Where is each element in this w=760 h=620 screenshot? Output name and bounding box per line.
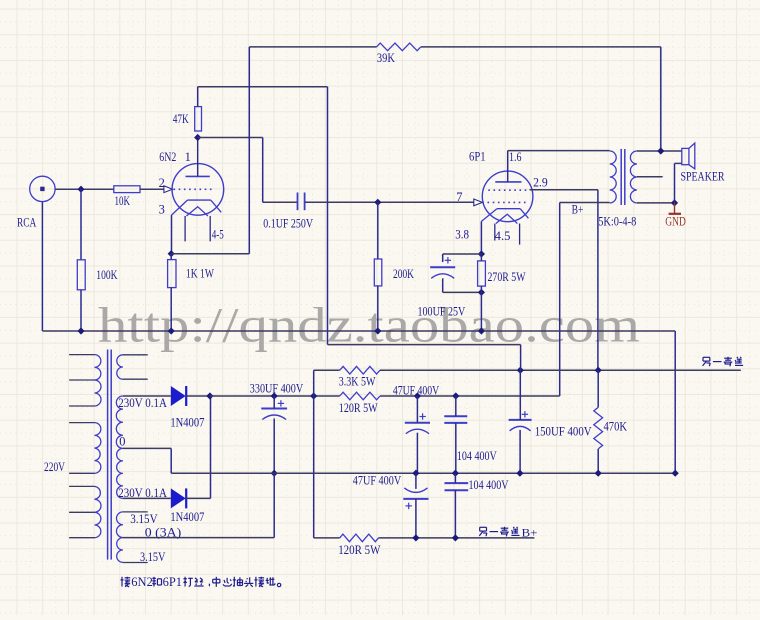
wire 100K bottom lead	[80, 290, 82, 331]
svg-text:5K:0-4-8: 5K:0-4-8	[598, 214, 636, 228]
resistor 470K (bleeder)	[594, 407, 603, 449]
junction node B1-47UF	[414, 392, 421, 399]
wire coupling cap to 6P1 grid	[305, 201, 474, 203]
junction node rect+	[206, 392, 213, 399]
wire HV lower to diode	[123, 497, 171, 499]
speaker LS1	[682, 148, 689, 164]
resistor 1K 1W (cathode)	[168, 260, 176, 288]
wire HV upper to diode	[123, 395, 171, 397]
wire 47UF-2 leads	[415, 473, 417, 489]
6P1 heater pin leads 4-5	[494, 224, 496, 241]
svg-text:GND: GND	[665, 214, 686, 228]
wire 100K top lead	[80, 189, 82, 260]
junction OC-47UF	[412, 534, 419, 541]
wire 47K top to B+ feed	[197, 87, 199, 107]
label 另一声道B+ (other channel B+)	[480, 526, 487, 528]
wire split up/down	[313, 370, 315, 538]
wire 6N2 supply tap	[328, 344, 521, 346]
junction OC-104	[452, 534, 459, 541]
svg-text:RCA: RCA	[17, 215, 36, 229]
svg-text:200K: 200K	[393, 267, 414, 281]
6N2 heater pin leads 4-5	[184, 216, 186, 241]
transformer T2 core	[620, 149, 622, 205]
transformer T1 core	[107, 350, 109, 560]
svg-text:SPEAKER: SPEAKER	[681, 170, 726, 184]
6N2 cathode	[187, 199, 210, 201]
capacitor 104 400V (upper)	[444, 415, 467, 417]
junction node K1	[168, 250, 175, 257]
wire speaker return	[674, 163, 676, 203]
wire 0V rail	[171, 472, 675, 474]
wire 3.3K row left	[314, 369, 340, 371]
tube 6N2 envelope U1	[172, 164, 224, 216]
junction node plate 6N2	[194, 134, 201, 141]
wire 270R leads	[480, 254, 482, 261]
svg-text:270R 5W: 270R 5W	[488, 270, 526, 284]
wire other channel row left	[314, 537, 340, 539]
wire secondary top to speaker	[637, 150, 682, 152]
wire secondary bottom	[637, 202, 675, 204]
diode 1N4007 D1	[171, 386, 186, 406]
resistor 200K (grid leak 6P1)	[374, 259, 382, 286]
6N2 heater	[186, 207, 208, 216]
svg-text:10K: 10K	[115, 194, 131, 208]
wire RCA to grid resistor	[55, 188, 114, 190]
svg-text:4-5: 4-5	[212, 228, 224, 242]
wire 330UF leads	[273, 396, 275, 409]
svg-text:3.8: 3.8	[455, 227, 469, 241]
transformer T2 primary winding	[610, 151, 617, 203]
wire D1 cathode to node	[186, 395, 210, 397]
wire 6N2 cathode pin3 lead	[171, 215, 173, 254]
wire ground bus	[42, 330, 675, 332]
wire secondary mid tap	[637, 176, 663, 178]
svg-text:2.9: 2.9	[533, 176, 548, 190]
transformer T1 winding HV 230V-0-230V	[116, 396, 123, 448]
wire D2 cathode up to node	[186, 497, 210, 499]
6N2 grid (dotted)	[174, 188, 215, 190]
wire 1K leads	[170, 254, 172, 260]
svg-text:3.15V: 3.15V	[130, 512, 157, 526]
svg-text:B+: B+	[522, 526, 538, 540]
svg-text:100K: 100K	[96, 268, 117, 282]
svg-text:1N4007: 1N4007	[170, 510, 204, 524]
6P1 control grid (dotted)	[482, 201, 525, 203]
svg-text:1: 1	[185, 150, 191, 164]
wire 104-2 leads	[454, 473, 456, 483]
svg-text:120R 5W: 120R 5W	[339, 401, 378, 415]
svg-text:330UF 400V: 330UF 400V	[250, 382, 303, 396]
capacitor 104 400V (lower)	[445, 482, 469, 484]
capacitor 150UF 400V	[522, 413, 528, 415]
transformer T1 winding aux	[117, 355, 123, 379]
svg-text:47UF 400V: 47UF 400V	[353, 474, 401, 488]
wire 200K bottom lead	[377, 286, 379, 331]
wire cathode RC bottom	[442, 278, 444, 292]
resistor 120R 5W (lower)	[340, 534, 379, 542]
pin arrow 6N2 pin2	[164, 186, 173, 193]
svg-text:4.5: 4.5	[495, 229, 511, 243]
svg-text:1.6: 1.6	[509, 150, 522, 164]
wire B+ row	[380, 395, 560, 397]
junction node IN	[77, 186, 84, 193]
resistor 270R 5W (cathode)	[478, 261, 486, 286]
wire other channel B+ row	[379, 537, 535, 539]
svg-text:3: 3	[159, 202, 165, 216]
svg-text:120R 5W: 120R 5W	[338, 543, 380, 557]
junction node SPK+	[657, 147, 664, 154]
6P1 plate	[495, 181, 521, 183]
junction node 330UF top	[271, 392, 278, 399]
junction node 0V-330UF	[271, 470, 278, 477]
wire screen to B+	[530, 189, 598, 191]
RCA input connector J1	[30, 176, 55, 201]
6N2 plate	[186, 175, 210, 177]
junction node B1-104	[452, 392, 459, 399]
junction node K2 top	[478, 250, 485, 257]
6P1 cathode	[497, 208, 520, 210]
wire B+ rail (other channel feed)	[380, 369, 741, 371]
wire cathode RC top	[443, 253, 482, 255]
wire 6P1 plate to OPT	[507, 151, 509, 182]
svg-text:0: 0	[119, 434, 125, 448]
svg-text:104 400V: 104 400V	[469, 478, 509, 492]
svg-text:6P1: 6P1	[469, 150, 486, 164]
ground GND symbol	[674, 203, 676, 214]
junction 0V-47UF	[412, 470, 419, 477]
junction 0V-470K	[595, 470, 602, 477]
svg-text:47UF 400V: 47UF 400V	[393, 384, 439, 398]
junction ground-270R	[478, 327, 485, 334]
junction 0V-104	[452, 470, 459, 477]
wire heater center tap to 0V	[123, 537, 274, 539]
junction node B2-150UF	[517, 367, 524, 374]
transformer T2 secondary winding	[630, 151, 637, 203]
wire OPT primary bottom / B+ drop	[560, 202, 610, 204]
svg-text:470K: 470K	[604, 420, 628, 434]
junction ground-100K	[77, 327, 84, 334]
capacitor 100UF 25V (cathode bypass)	[445, 259, 451, 261]
svg-text:39K: 39K	[377, 51, 395, 65]
diode 1N4007 D2	[171, 488, 186, 508]
junction 0V-busdrop	[672, 470, 679, 477]
tube 6P1 envelope U2	[482, 171, 533, 222]
svg-text:6N2: 6N2	[131, 575, 153, 589]
wire NFB from cathode	[171, 253, 249, 255]
wire 200K top lead	[377, 202, 379, 259]
wire 104-1 leads	[455, 396, 457, 416]
wire 10K to 6N2 grid	[140, 188, 164, 190]
resistor 39K (feedback)	[377, 43, 421, 51]
junction 0V-150UF	[516, 470, 523, 477]
resistor 100K (grid leak)	[77, 260, 85, 290]
svg-text:3.15V: 3.15V	[140, 550, 165, 564]
capacitor 0.1UF 250V (coupling)	[297, 193, 299, 211]
wire 39K to speaker node	[421, 46, 661, 48]
wire RCA down lead	[41, 202, 43, 331]
transformer T1 winding heater 3.15V-0-3.15V	[117, 512, 123, 538]
junction node G2drive	[374, 199, 381, 206]
wire rectified rail	[210, 395, 340, 397]
pin arrow 6P1 pin7	[474, 199, 483, 206]
note 接6N2和6P1灯丝，中心抽头接地。	[121, 577, 123, 587]
svg-text:B+: B+	[572, 203, 584, 217]
wire 470K leads	[597, 370, 599, 407]
junction node split	[310, 392, 317, 399]
resistor 47K (plate load)	[195, 107, 202, 131]
wire plate to coupling cap	[198, 137, 263, 139]
transformer T1 primary lead stubs	[69, 354, 94, 356]
wire 47UF-1 leads	[416, 396, 418, 423]
6P1 screen grid (dotted)	[488, 189, 528, 191]
junction node B2-470K	[595, 367, 602, 374]
transformer T1 primary winding	[95, 355, 101, 380]
junction ground-1K	[168, 327, 175, 334]
junction ground-200K	[374, 327, 381, 334]
6P1 heater	[496, 214, 518, 223]
svg-text:6N2: 6N2	[159, 150, 176, 164]
resistor 120R 5W (upper)	[340, 392, 380, 400]
capacitor 330UF 400V (first filter)	[278, 402, 284, 404]
capacitor 47UF 400V (lower)	[403, 498, 428, 500]
svg-text:104 400V: 104 400V	[457, 449, 497, 463]
svg-text:1N4007: 1N4007	[170, 416, 204, 430]
junction node SPK-	[671, 199, 678, 206]
wire 150UF leads	[519, 370, 521, 420]
svg-text:1K 1W: 1K 1W	[186, 267, 214, 281]
capacitor 47UF 400V (upper)	[419, 416, 425, 418]
svg-text:7: 7	[456, 190, 462, 204]
wire 6P1 cathode pin3 lead	[480, 221, 482, 254]
svg-text:220V: 220V	[44, 460, 65, 474]
resistor 3.3K 5W	[340, 366, 380, 374]
wire HV center tap to 0V rail	[123, 447, 171, 449]
svg-text:6P1: 6P1	[163, 575, 182, 589]
svg-text:0.1UF 250V: 0.1UF 250V	[263, 217, 313, 231]
junction node K2 bottom	[478, 289, 485, 296]
label 另一声道 (other channel)	[703, 356, 710, 358]
svg-text:2: 2	[159, 176, 165, 190]
svg-text:3.3K 5W: 3.3K 5W	[339, 375, 376, 389]
svg-text:47K: 47K	[173, 112, 189, 126]
svg-text:230V 0.1A: 230V 0.1A	[118, 396, 167, 410]
svg-text:150UF 400V: 150UF 400V	[535, 425, 592, 439]
svg-text:100UF 25V: 100UF 25V	[418, 305, 466, 319]
resistor 10K (grid stopper)	[114, 186, 140, 193]
